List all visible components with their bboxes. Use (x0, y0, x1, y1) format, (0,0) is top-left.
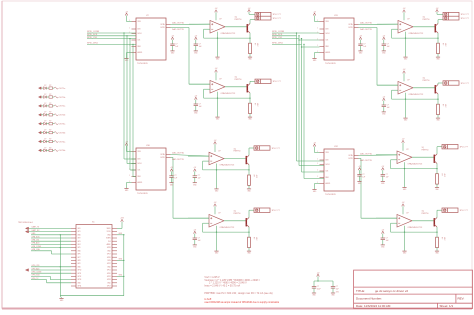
svg-text:R?: R? (49, 103, 51, 105)
svg-text:PMP750: PMP750 (423, 19, 430, 21)
svg-text:DAC-OUT?B: DAC-OUT?B (172, 28, 184, 31)
svg-text:R?: R? (442, 43, 444, 45)
svg-text:1PLC Y?: 1PLC Y? (273, 18, 282, 20)
svg-text:GND: GND (107, 266, 110, 268)
svg-text:GND: GND (78, 282, 81, 284)
svg-text:1PLC Y?: 1PLC Y? (461, 14, 470, 16)
svg-text:R?: R? (442, 104, 444, 106)
svg-text:GP6: GP6 (78, 254, 81, 256)
svg-text:U?: U? (219, 19, 221, 21)
svg-text:D?: D? (44, 85, 46, 87)
svg-text:R?: R? (441, 237, 443, 239)
svg-text:SPID_CONN: SPID_CONN (272, 31, 285, 33)
svg-text:1uF: 1uF (198, 178, 201, 180)
svg-text:3V3: 3V3 (108, 241, 111, 243)
svg-text:+5V: +5V (382, 35, 385, 37)
svg-text:GP19: GP19 (107, 276, 111, 278)
svg-text:GP14: GP14 (78, 286, 82, 288)
svg-text:40.2: 40.2 (444, 104, 446, 107)
svg-text:1uF: 1uF (336, 288, 339, 290)
svg-text:1uF: 1uF (386, 176, 389, 178)
svg-text:+5V: +5V (194, 35, 197, 37)
svg-text:GP9: GP9 (78, 263, 81, 265)
svg-text:40.2: 40.2 (443, 237, 445, 240)
svg-text:+3V3: +3V3 (120, 218, 124, 220)
svg-text:U?: U? (406, 213, 408, 215)
svg-text:/CS: /CS (138, 170, 141, 172)
svg-text:R?: R? (254, 103, 256, 105)
svg-text:1uF: 1uF (387, 46, 390, 48)
svg-text:1PLC Y?: 1PLC Y? (461, 18, 470, 20)
svg-text:Date: 11/6/2022 11:00 AM: Date: 11/6/2022 11:00 AM (356, 304, 391, 308)
svg-text:1uF: 1uF (175, 46, 178, 48)
svg-text:OUTB: OUTB (348, 27, 352, 29)
svg-text:GP27: GP27 (107, 254, 111, 256)
svg-text:+5V: +5V (403, 69, 406, 71)
svg-text:GND: GND (78, 250, 81, 252)
svg-text:GP11: GP11 (78, 273, 82, 275)
svg-text:+5V: +5V (215, 68, 218, 70)
svg-text:OUT2b: OUT2b (59, 115, 66, 117)
svg-text:+5V: +5V (214, 202, 217, 204)
svg-text:1uF: 1uF (363, 46, 366, 48)
svg-text:REF: REF (326, 177, 329, 179)
svg-text:GP0: GP0 (78, 228, 81, 230)
svg-text:GP21: GP21 (107, 270, 111, 272)
svg-text:+5V: +5V (382, 96, 385, 98)
svg-text:OUT4b: OUT4b (59, 150, 66, 152)
svg-text:OPA2348-SOT23: OPA2348-SOT23 (409, 93, 424, 96)
svg-text:GP1: GP1 (78, 231, 81, 233)
svg-text:GND: GND (78, 234, 81, 236)
svg-text:R?: R? (49, 147, 51, 149)
svg-text:GPG_CONN: GPG_CONN (32, 272, 42, 274)
svg-text:DAC-OUT?A: DAC-OUT?A (172, 22, 184, 25)
svg-text:UART_TX: UART_TX (32, 226, 41, 229)
svg-text:1uF: 1uF (198, 240, 201, 242)
svg-text:TITLE:: TITLE: (356, 289, 365, 293)
svg-text:R?: R? (49, 85, 51, 87)
svg-text:40.2: 40.2 (255, 237, 257, 240)
svg-text:D?: D? (44, 147, 46, 149)
svg-text:GPG_SCK: GPG_SCK (32, 275, 41, 277)
svg-text:U?: U? (218, 213, 220, 215)
svg-text:+5V: +5V (193, 229, 196, 231)
svg-text:D?: D? (44, 138, 46, 140)
svg-text:U?: U? (218, 151, 220, 153)
svg-text:GP20: GP20 (107, 273, 111, 275)
svg-text:GPG_CS1: GPG_CS1 (32, 265, 40, 267)
svg-text:+5V: +5V (214, 140, 217, 142)
svg-text:1uF: 1uF (174, 178, 177, 180)
svg-text:GND: GND (107, 234, 110, 236)
svg-text:D?: D? (44, 121, 46, 123)
svg-text:PMP750: PMP750 (423, 80, 430, 82)
svg-text:+5V: +5V (193, 167, 196, 169)
svg-text:GP18: GP18 (107, 279, 111, 281)
svg-text:TLV5618CD: TLV5618CD (325, 63, 336, 65)
svg-text:+5V: +5V (194, 95, 197, 97)
svg-text:1PLC Y?: 1PLC Y? (460, 147, 469, 149)
svg-text:DAC-OUT?A: DAC-OUT?A (360, 153, 372, 156)
svg-text:40.2: 40.2 (256, 103, 258, 106)
svg-text:TLV5618CD: TLV5618CD (325, 194, 336, 196)
svg-text:SPID_CS1: SPID_CS1 (87, 37, 98, 39)
svg-text:PMP7580: max Pd = 300 mW ; des: PMP7580: max Pd = 300 mW ; design max Pd… (204, 292, 272, 295)
svg-text:+5V: +5V (317, 272, 320, 274)
svg-text:1PLC Y?: 1PLC Y? (272, 210, 281, 212)
svg-text:40.2: 40.2 (443, 174, 445, 177)
svg-text:40.2: 40.2 (444, 43, 446, 46)
svg-text:REV:: REV: (458, 296, 465, 300)
svg-text:TINY-USB-02-b-0: TINY-USB-02-b-0 (18, 222, 33, 224)
svg-text:40.2: 40.2 (256, 43, 258, 46)
svg-text:+5V: +5V (359, 35, 362, 37)
svg-text:+5V: +5V (171, 35, 174, 37)
svg-text:+5V: +5V (403, 8, 406, 10)
svg-text:OPA2348-SOT23: OPA2348-SOT23 (408, 162, 423, 165)
svg-text:U?: U? (406, 149, 408, 151)
svg-text:3V3EN: 3V3EN (106, 238, 111, 240)
svg-text:OUT4a: OUT4a (59, 141, 66, 143)
svg-text:OUT3a: OUT3a (59, 124, 66, 126)
svg-text:GP12: GP12 (78, 276, 82, 278)
svg-text:1uF: 1uF (199, 46, 202, 48)
svg-text:TLV5618CD: TLV5618CD (137, 63, 148, 65)
svg-text:DAC-OUT?A: DAC-OUT?A (172, 152, 184, 155)
svg-text:D?: D? (44, 130, 46, 132)
svg-text:/CS: /CS (138, 40, 141, 42)
svg-text:OPA2348-SOT23: OPA2348-SOT23 (220, 164, 235, 167)
svg-text:DAC-OUT?B: DAC-OUT?B (360, 28, 372, 31)
svg-text:GP4: GP4 (78, 244, 81, 246)
svg-text:OPA2348-SOT23: OPA2348-SOT23 (220, 226, 235, 229)
svg-text:GP17: GP17 (107, 286, 111, 288)
svg-text:GPB_AD0: GPB_AD0 (32, 242, 40, 245)
svg-text:U?: U? (219, 79, 221, 81)
svg-text:OUT2a: OUT2a (59, 106, 66, 108)
svg-text:/CS: /CS (326, 40, 329, 42)
svg-text:DAC-OUT?A: DAC-OUT?A (360, 22, 372, 25)
svg-text:OPA2348-SOT23: OPA2348-SOT23 (409, 32, 424, 35)
svg-text:SPID_SCK: SPID_SCK (87, 34, 98, 36)
svg-text:R?: R? (253, 175, 255, 177)
svg-text:R?: R? (441, 174, 443, 176)
svg-text:OUTB: OUTB (160, 157, 164, 159)
svg-text:PMP750: PMP750 (235, 79, 242, 81)
svg-text:1uF: 1uF (387, 107, 390, 109)
svg-text:+5V: +5V (248, 8, 251, 10)
svg-text:UART_RX: UART_RX (32, 229, 41, 232)
svg-text:U?: U? (407, 19, 409, 21)
svg-text:VSYS: VSYS (107, 231, 111, 233)
svg-text:REF: REF (138, 176, 141, 178)
svg-text:GP7: GP7 (78, 257, 81, 259)
svg-text:+5V: +5V (402, 139, 405, 141)
svg-text:OPA2348-SOT23: OPA2348-SOT23 (221, 32, 236, 35)
svg-text:used OPA2426 as amps instead o: used OPA2426 as amps instead of OPA2340 … (204, 301, 280, 304)
svg-text:RUN: RUN (107, 260, 110, 262)
svg-text:D?: D? (44, 112, 46, 114)
svg-text:1PLC Y?: 1PLC Y? (273, 81, 282, 83)
svg-text:GP3: GP3 (78, 241, 81, 243)
svg-text:R?: R? (49, 94, 51, 96)
svg-text:PMP750: PMP750 (234, 213, 241, 215)
svg-text:+5V: +5V (381, 229, 384, 231)
svg-text:DAC-OUT?B: DAC-OUT?B (172, 158, 184, 161)
svg-text:SPID_DIN1: SPID_DIN1 (87, 43, 99, 45)
svg-text:GPG_AD1: GPG_AD1 (32, 267, 40, 270)
svg-text:GP8: GP8 (78, 260, 81, 262)
svg-text:1uF: 1uF (362, 176, 365, 178)
svg-text:1uF: 1uF (386, 240, 389, 242)
svg-text:OUT1a: OUT1a (59, 88, 66, 90)
svg-text:GPB_CSA: GPB_CSA (32, 248, 41, 251)
svg-text:PMP750: PMP750 (234, 151, 241, 153)
svg-text:R?: R? (49, 121, 51, 123)
svg-text:REF: REF (326, 46, 329, 48)
svg-text:OUT3b: OUT3b (59, 132, 66, 134)
svg-text:D?: D? (44, 94, 46, 96)
svg-text:D?: D? (44, 103, 46, 105)
svg-text:VBUS: VBUS (107, 228, 111, 230)
svg-text:+5V: +5V (402, 202, 405, 204)
svg-text:R?: R? (49, 130, 51, 132)
svg-text:GP10: GP10 (78, 270, 82, 272)
svg-text:SPID_DIN1: SPID_DIN1 (272, 43, 284, 45)
svg-text:PMP750: PMP750 (235, 19, 242, 21)
svg-text:Sheet: 1/1: Sheet: 1/1 (440, 304, 454, 308)
svg-text:ge dc setsyn cc driver v2: ge dc setsyn cc driver v2 (375, 289, 408, 293)
svg-text:10uF: 10uF (317, 288, 321, 290)
svg-text:U?: U? (407, 80, 409, 82)
svg-text:GP2: GP2 (78, 238, 81, 240)
svg-text:GND: GND (107, 282, 110, 284)
svg-text:Document Number:: Document Number: (356, 296, 382, 300)
svg-text:40.2: 40.2 (255, 175, 257, 178)
svg-text:DAC-OUT?B: DAC-OUT?B (360, 159, 372, 162)
svg-text:1PLC Y?: 1PLC Y? (272, 148, 281, 150)
svg-text:1uF: 1uF (199, 106, 202, 108)
svg-text:GPB_CONN: GPB_CONN (32, 246, 42, 248)
svg-text:PMP750: PMP750 (422, 213, 429, 215)
svg-text:SPID_SCK: SPID_SCK (272, 34, 283, 36)
svg-text:GPG_TX: GPG_TX (32, 278, 40, 280)
svg-text:+5V: +5V (313, 142, 316, 144)
svg-text:1PLC Y?: 1PLC Y? (461, 83, 470, 85)
svg-text:GP5: GP5 (78, 247, 81, 249)
svg-text:GPB_CS1: GPB_CS1 (32, 240, 40, 242)
svg-text:SPID_CONN: SPID_CONN (87, 31, 100, 33)
svg-text:+5V: +5V (436, 8, 439, 10)
svg-text:GP28: GP28 (107, 247, 111, 249)
svg-text:R?: R? (49, 138, 51, 140)
svg-text:1PLC Y?: 1PLC Y? (460, 210, 469, 212)
svg-text:+5V: +5V (215, 8, 218, 10)
svg-text:PMP750: PMP750 (422, 149, 429, 151)
svg-text:OPA2348-SOT23: OPA2348-SOT23 (221, 92, 236, 95)
svg-text:OUTB: OUTB (160, 27, 164, 29)
svg-text:1PLC Y?: 1PLC Y? (273, 14, 282, 16)
svg-text:OUTB: OUTB (348, 158, 352, 160)
svg-text:R?: R? (49, 112, 51, 114)
svg-text:GND: GND (107, 250, 110, 252)
svg-text:GP13: GP13 (78, 279, 82, 281)
svg-text:REF: REF (138, 46, 141, 48)
svg-text:+5V: +5V (358, 166, 361, 168)
svg-text:GP26: GP26 (107, 257, 111, 259)
svg-text:GP22: GP22 (107, 263, 111, 265)
svg-text:GND: GND (78, 266, 81, 268)
svg-text:R?: R? (253, 237, 255, 239)
svg-text:TLV5618CD: TLV5618CD (137, 193, 148, 195)
svg-text:+5V: +5V (381, 166, 384, 168)
svg-text:OUT1b: OUT1b (59, 97, 66, 99)
svg-text:+5V: +5V (170, 167, 173, 169)
svg-text:OPA2348-SOT23: OPA2348-SOT23 (408, 226, 423, 229)
svg-text:+5V: +5V (125, 141, 128, 143)
svg-text:SPID_CS1: SPID_CS1 (272, 37, 283, 39)
svg-text:/CS: /CS (326, 171, 329, 173)
svg-text:R?: R? (254, 43, 256, 45)
svg-text:GPB_SCK: GPB_SCK (32, 236, 41, 238)
svg-text:+5V: +5V (125, 11, 128, 13)
svg-text:Imax = 2.048 V / 40.2 = 50.75: Imax = 2.048 V / 40.2 = 50.75 mA (204, 285, 240, 288)
svg-text:+5V: +5V (313, 11, 316, 13)
